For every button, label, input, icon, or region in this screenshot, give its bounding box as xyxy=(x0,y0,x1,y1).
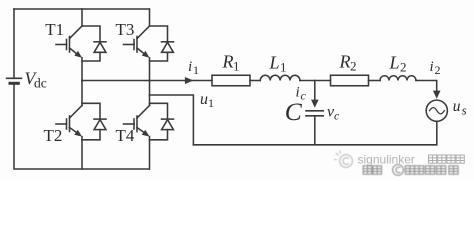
svg-text:R: R xyxy=(339,52,351,72)
svg-text:2: 2 xyxy=(400,60,407,75)
svg-text:u: u xyxy=(200,91,208,108)
svg-text:1: 1 xyxy=(233,59,240,74)
svg-text:dc: dc xyxy=(34,76,47,91)
svg-text:L: L xyxy=(269,53,280,73)
svg-text:signulinker: signulinker xyxy=(358,153,415,167)
svg-text:c: c xyxy=(334,109,340,123)
svg-text:L: L xyxy=(389,53,400,73)
svg-text:T4: T4 xyxy=(116,126,135,145)
svg-text:i: i xyxy=(430,59,434,75)
svg-text:T2: T2 xyxy=(44,126,63,145)
svg-text:2: 2 xyxy=(350,59,357,74)
svg-text:2: 2 xyxy=(435,63,441,77)
svg-text:R: R xyxy=(222,52,234,72)
svg-text:i: i xyxy=(188,59,192,75)
svg-text:1: 1 xyxy=(193,63,199,77)
svg-text:s: s xyxy=(462,102,467,117)
svg-text:1: 1 xyxy=(280,60,287,75)
svg-text:C: C xyxy=(285,97,303,126)
svg-text:1: 1 xyxy=(208,96,214,110)
svg-text:T1: T1 xyxy=(45,20,64,39)
svg-text:T3: T3 xyxy=(116,20,135,39)
svg-text:u: u xyxy=(453,98,461,115)
